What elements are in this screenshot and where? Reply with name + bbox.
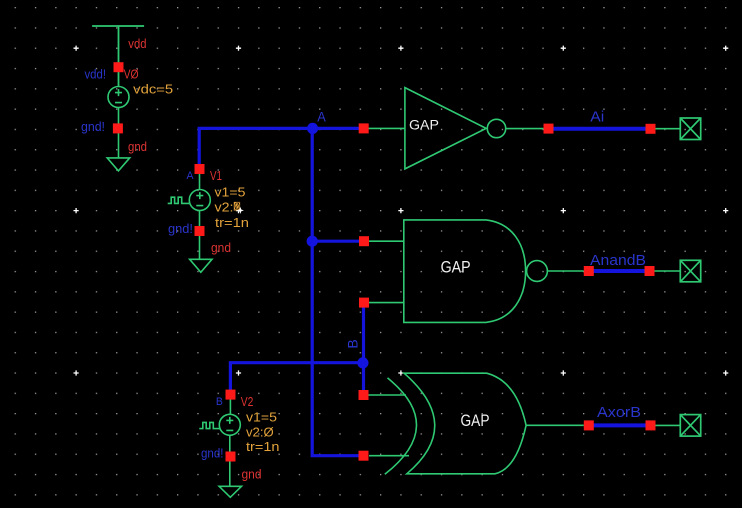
pin square V0 plus xyxy=(114,62,124,72)
inverter U1 xyxy=(405,88,544,169)
node A junction xyxy=(307,123,318,134)
voltage source V1 xyxy=(168,169,211,259)
xor U3 input wires xyxy=(369,395,410,456)
svg-text:gnd!: gnd! xyxy=(81,120,105,134)
svg-text:B: B xyxy=(216,396,223,408)
pin square nand input B xyxy=(359,298,369,308)
wire V2 to node B xyxy=(230,363,363,395)
node B junction xyxy=(357,357,368,368)
svg-text:V2: V2 xyxy=(241,395,254,409)
wire node to nand input A xyxy=(312,240,364,243)
pin square V1 minus xyxy=(195,226,205,236)
ground symbol V2 xyxy=(219,486,241,497)
output pin Ai xyxy=(680,118,700,140)
nand gate U2 xyxy=(404,220,584,323)
svg-text:v2:Ø: v2:Ø xyxy=(246,426,274,440)
wire node A vertical xyxy=(312,128,363,455)
pin square inverter output xyxy=(544,124,554,134)
wire V1 to node A to inverter xyxy=(199,128,364,169)
svg-text:v1=5: v1=5 xyxy=(215,186,246,200)
svg-text:tr=1n: tr=1n xyxy=(246,440,280,454)
voltage source V2 xyxy=(199,395,240,487)
mouse cursor star xyxy=(237,207,244,214)
svg-text:gnd: gnd xyxy=(242,468,262,482)
svg-text:v1=5: v1=5 xyxy=(246,411,277,425)
svg-text:vdc=5: vdc=5 xyxy=(133,82,173,96)
nand U2 input wires xyxy=(369,241,404,302)
svg-text:gnd!: gnd! xyxy=(201,447,224,461)
voltage source V0 xyxy=(108,87,129,158)
svg-text:AxorB: AxorB xyxy=(597,404,641,421)
svg-text:A: A xyxy=(187,170,195,182)
pin square nand output xyxy=(584,266,594,276)
pin square xor input B xyxy=(359,451,369,461)
svg-text:B: B xyxy=(344,339,360,348)
svg-text:A: A xyxy=(317,108,326,124)
svg-text:GAP: GAP xyxy=(409,118,439,133)
xor gate U3 xyxy=(385,373,584,474)
pin square xor output xyxy=(584,420,594,430)
pin square Ai right xyxy=(646,124,656,134)
pin square AxorB right xyxy=(646,420,656,430)
ground symbol V1 xyxy=(190,259,212,272)
svg-text:VØ: VØ xyxy=(124,68,139,82)
wire Ai xyxy=(549,127,651,131)
pin square V0 minus xyxy=(113,123,123,133)
svg-text:Ai: Ai xyxy=(590,109,604,126)
pin square V2 plus xyxy=(226,390,236,400)
pin square xor input A xyxy=(359,390,369,400)
svg-text:gnd: gnd xyxy=(128,140,147,154)
pin square V1 plus xyxy=(195,164,205,174)
wire AxorB xyxy=(589,423,651,427)
inverter U1 input wire xyxy=(369,127,405,129)
wire nand input B to node B to xor input A xyxy=(362,303,365,395)
svg-text:AnandB: AnandB xyxy=(590,252,646,269)
svg-text:v2:: v2: xyxy=(215,201,234,215)
pin square inverter input xyxy=(359,123,369,133)
ground symbol V0 xyxy=(107,158,130,171)
wire to output pin AxorB xyxy=(656,424,681,426)
svg-text:vdd: vdd xyxy=(128,37,146,51)
svg-text:V1: V1 xyxy=(210,169,222,183)
pin square AnandB right xyxy=(645,266,655,276)
pin square nand input A xyxy=(359,236,369,246)
vdd rail symbol xyxy=(92,26,144,87)
wire AnandB xyxy=(589,269,650,273)
svg-text:GAP: GAP xyxy=(441,259,471,277)
wire to output pin AnandB xyxy=(655,270,681,272)
svg-text:vdd!: vdd! xyxy=(85,67,107,81)
output pin AnandB xyxy=(680,260,700,282)
svg-text:gnd!: gnd! xyxy=(168,222,193,236)
wire to output pin Ai xyxy=(656,128,681,130)
svg-text:tr=1n: tr=1n xyxy=(215,216,249,230)
pin square V2 minus xyxy=(226,452,236,462)
svg-text:GAP: GAP xyxy=(461,412,490,430)
output pin AxorB xyxy=(680,415,700,437)
node junction nand branch xyxy=(307,236,318,247)
svg-text:gnd: gnd xyxy=(211,241,231,255)
